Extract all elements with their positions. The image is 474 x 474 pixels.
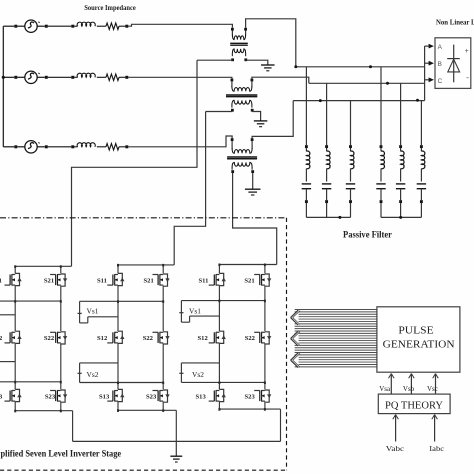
svg-text:Passive Filter: Passive Filter [343,230,392,240]
wire stub to load B [425,62,429,64]
terminal square right of source 2 [45,76,48,79]
svg-text:+: + [465,48,469,55]
voltage source Vs2 module 2 [80,362,118,364]
wire module 2 mid rail upper [80,300,164,302]
voltage source Vs1 module 2 [79,301,81,323]
transistor S11 module 3 [219,273,223,285]
transformer T3 primary winding [231,141,233,149]
inverter stage dashed border top [0,217,287,219]
wire module 1 right column [60,266,62,273]
transistor S13 module 1 [15,389,19,401]
terminal square filter 2 bottom [325,200,328,203]
terminal square filter 3 bottom [349,200,352,203]
wire filter 6 to bottom bus [420,203,422,217]
wire to AC source 2 [17,76,25,78]
svg-text:S11: S11 [0,277,2,284]
transformer T3 core [227,156,257,158]
wire R2 to node [119,76,125,78]
svg-text:Vs2: Vs2 [192,370,204,379]
wire T1 primary right to bus A [246,19,296,67]
terminal square filter 4 bottom [380,200,383,203]
transformer T1 core [230,42,248,44]
terminal square left of source 1 [14,25,17,28]
wire filter 3 [350,148,352,151]
wire module 2 mid rail lower [80,382,164,384]
transformer T1 secondary loops [232,49,245,54]
transformer T1 terminals top [231,28,234,31]
transistor S12 module 3 [219,331,223,343]
transformer T2 primary winding [231,81,233,87]
voltage source Vs1 module 3 [180,301,182,323]
AC source Vs1 [25,20,37,32]
junction nubs module 3 [218,264,220,267]
terminal square filter 5 bottom [399,200,402,203]
transformer T3 primary loops [232,148,252,153]
wire T3 primary right to bus C [252,101,293,139]
transformer T2 primary loops [232,86,252,91]
wire ground stem [175,441,177,456]
non linear load box U1 [435,38,471,89]
terminal square right of source 3 [45,145,48,148]
svg-text:S23: S23 [45,393,56,400]
wire filter 4 low [380,189,382,200]
terminal square after resistor R1 [125,25,128,28]
terminal square left of source 3 [14,145,17,148]
wire to AC source 1 [17,25,25,27]
svg-text:Vs1: Vs1 [189,307,201,316]
terminal square filter 4 [380,145,383,148]
resistor R1 source impedance [106,23,119,29]
junction nubs module 2 [117,264,119,267]
transistor S13 module 3 [219,389,223,401]
wire filter 6 low [420,189,422,200]
transistor S12 module 2 [118,331,122,343]
wire filter branch 1 drop [305,67,307,145]
capacitor Cf2 [322,183,331,185]
wire module 1 left column [14,266,16,273]
wire filter 1 mid [305,169,307,182]
transistor S11 module 2 [118,273,122,285]
wire module 3 right column [264,265,266,274]
wire module 1 mid rail upper [0,300,61,302]
svg-text:Vs1: Vs1 [87,307,99,316]
wire filter 1 to bottom bus [305,203,307,217]
capacitor Cf5 [396,183,405,185]
wire bus phase A [296,66,425,68]
wire arrow Vsb [410,374,412,395]
wire to inductor L3 [74,146,77,148]
wire from AC source 2 [37,76,45,78]
wire source 2 to impedance [48,76,72,78]
wire source 1 to impedance [48,25,72,27]
svg-text:S22: S22 [143,335,154,342]
terminal square filter 2 [325,145,328,148]
svg-text:C: C [438,78,443,85]
voltage source Vs2 module 1 top stub [0,361,15,363]
wire load drop vertical [424,46,426,101]
wire bus phase C [293,100,424,102]
block PULSE GENERATION [377,307,460,372]
transformer T2 terminals top [231,79,234,82]
wire module 3 bottom feed [280,409,282,441]
inductor Lf6 [421,151,424,169]
wire module 1 bottom feed [72,411,74,442]
wire module 2 right column [162,265,164,274]
resistor R3 source impedance [106,144,119,150]
inverter stage dashed border right [286,218,288,470]
wire module 2 bottom rail [118,409,176,411]
wire module 2 top rail [118,264,174,266]
wire R1 to node [119,25,125,27]
transistor S21 module 2 [163,274,167,286]
wire T1 secondary right to ground [246,60,268,65]
wire filter branch 4 drop [380,67,382,145]
terminal square filter 5 [399,145,402,148]
wire bus to source 3 [3,146,14,148]
wire T3 secondary left into inverter [233,173,277,265]
svg-text:S23: S23 [245,393,256,400]
transformer T1 terminals bottom [231,58,234,61]
wire filter 3 low [350,189,352,200]
terminal square after resistor R3 [125,145,128,148]
node filter group 1 [338,216,341,219]
wire bus to source 2 [3,76,14,78]
wire stub to load C [425,79,429,81]
transformer T3 terminals top [231,138,234,141]
wire module 1 bottom rail [15,410,72,412]
svg-text:Source Impedance: Source Impedance [84,3,136,12]
svg-text:S22: S22 [44,335,55,342]
svg-text:Vsc: Vsc [427,385,438,393]
svg-text:S12: S12 [97,335,108,342]
svg-text:S23: S23 [146,393,157,400]
wire filter 4 to bottom bus [380,203,382,217]
AC source Vs3 [25,141,37,153]
wire filter branch 5 drop [400,83,402,145]
svg-text:PULSE: PULSE [398,326,433,337]
wire filter 6 [420,148,422,151]
wire bus to source 1 [3,25,14,27]
terminal square filter 1 bottom [305,200,308,203]
wire module 1 mid rail lower [0,381,61,383]
terminal square after resistor R2 [125,76,128,79]
transistor S21 module 1 [61,274,65,286]
inductor Lf3 [351,151,354,169]
wire module 2 left column [117,265,119,274]
wire bus phase B [309,82,425,84]
inductor L2 source impedance [77,73,95,77]
transistor S11 module 1 [15,273,19,285]
wire filter 5 mid [400,169,402,182]
wire inverter bottom bus [73,440,281,442]
arrowhead into inverter [291,353,299,368]
wire T1 secondary left [197,59,233,61]
wire filter 3 mid [350,169,352,182]
wire filter 5 low [400,189,402,200]
svg-text:Vabc: Vabc [386,444,405,453]
wire from AC source 3 [37,146,45,148]
ground at T3 [245,188,261,190]
node bus C left [319,99,322,102]
wire filter 2 mid [326,169,328,182]
wire from AC source 1 [37,25,45,27]
node filter group 2 [399,216,402,219]
node bus C right [416,99,419,102]
wire filter 5 to bottom bus [400,203,402,217]
svg-text:GENERATION: GENERATION [383,340,455,351]
wire filter group 1 bottom bus [306,216,350,218]
wire L2 to R2 [97,76,106,78]
terminal square left of source 2 [14,76,17,79]
transistor S13 module 2 [118,389,122,401]
transistor S23 module 2 [163,390,167,402]
wire filter branch 2 drop [326,83,328,145]
inverter stage dashed border bottom [0,469,287,471]
wire filter 2 to bottom bus [326,203,328,217]
wire filter group 2 bottom bus [381,216,421,218]
wire filter 2 low [326,189,328,200]
svg-text:S11: S11 [97,277,107,284]
wire filter 1 low [305,189,307,200]
wire phase A to transformer T1 [128,24,232,27]
wire arrow Vsc [435,374,437,395]
svg-text:Non Linear Load: Non Linear Load [436,20,474,27]
ground of inverter [170,455,182,457]
wire module 3 left column [218,265,220,274]
wire filter branch 3 drop [350,101,352,146]
arrowhead into load B [429,61,434,66]
transformer T3 secondary loops [232,162,252,167]
transistor S12 module 1 [15,331,19,343]
terminal square right of source 1 [45,25,48,28]
transformer T2 secondary loops [232,100,252,105]
wire to AC source 3 [17,146,25,148]
wire L3 to R3 [97,146,106,148]
capacitor Cf1 [302,183,311,185]
svg-text:B: B [438,61,442,68]
wire R3 to node [119,146,125,148]
wire T2 return vertical [174,112,205,265]
wire T2 secondary right to ground [252,112,260,121]
wire module 3 mid rail lower [181,381,265,383]
ground at T2 [254,120,268,122]
svg-text:Vs2: Vs2 [87,370,99,379]
capacitor Cf4 [376,183,385,185]
wire filter 3 to bottom bus [350,203,352,217]
capacitor Cf3 [346,183,355,185]
wire T1 return vertical [72,60,198,266]
svg-text:S13: S13 [196,393,207,400]
wire module 3 mid rail upper [181,300,265,302]
wire to inductor L2 [74,76,77,78]
transformer T1 primary loops [232,35,245,40]
wire filter 6 mid [420,169,422,182]
wire module 1 top rail [15,265,71,267]
terminal square filter 6 bottom [420,200,423,203]
terminal square before inductor L3 [71,145,74,148]
wire source 3 to impedance [48,146,72,148]
wire gate pulse bus lines [295,310,377,367]
wire phase B to transformer T2 [128,77,232,78]
inductor Lf4 [381,151,384,169]
terminal square before inductor L1 [71,25,74,28]
transistor S22 module 3 [265,332,269,344]
node bus A [369,65,372,68]
transformer T2 core [226,94,257,96]
inductor Lf2 [327,151,330,169]
terminal square filter 1 [305,145,308,148]
svg-text:S13: S13 [99,393,110,400]
wire T3 secondary right to ground [252,173,254,189]
arrowhead into load A [429,44,434,49]
inductor Lf5 [401,151,404,169]
terminal square before inductor L2 [71,76,74,79]
transistor S23 module 3 [265,390,269,402]
transistor S23 module 1 [61,390,65,402]
svg-text:Vsb: Vsb [403,385,415,393]
wire L1 to R1 [97,25,106,27]
wire module 3 top rail [219,264,276,266]
terminal square filter 3 [349,145,352,148]
wire stub to load A [425,45,429,47]
svg-text:-: - [466,73,469,82]
node bus A at T1 feed [294,65,297,68]
transistor S22 module 2 [163,332,167,344]
wire arrow Vabc [395,415,397,442]
svg-text:plified Seven Level Inverter S: plified Seven Level Inverter Stage [1,449,122,459]
node on left bus [2,76,5,79]
capacitor Cf6 [417,183,426,185]
wire T2 primary right to bus B [252,77,309,83]
svg-text:S21: S21 [244,277,254,284]
svg-text:PQ THEORY: PQ THEORY [385,400,443,412]
wire T2 secondary left [206,111,233,113]
transformer T3 terminals bottom [231,170,234,173]
junction nubs module 1 [14,265,16,268]
svg-text:S22: S22 [245,335,256,342]
wire filter 5 [400,148,402,151]
transformer T1 primary winding [231,30,233,35]
transformer T2 terminals bottom [231,109,234,112]
left bus wire [2,26,4,147]
resistor R2 source impedance [106,74,119,80]
arrowhead into inverter [291,331,299,346]
svg-text:A: A [438,44,443,51]
arrowhead into inverter [291,310,299,325]
wire filter 4 [380,148,382,151]
wire to inductor L1 [74,25,77,27]
inductor L3 source impedance [77,143,95,147]
wire filter 4 mid [380,169,382,182]
diode D1 inside load [453,45,455,83]
wire module 2 bottom feed [175,410,177,441]
block PQ THEORY [378,394,450,414]
svg-text:S11: S11 [199,277,209,284]
transistor S22 module 1 [61,332,65,344]
svg-text:S12: S12 [198,335,209,342]
wire arrow Vsa [390,374,392,395]
transistor S21 module 3 [265,274,269,286]
wire filter 2 [326,148,328,151]
inductor L1 source impedance [77,22,95,26]
wire phase C to transformer T3 [128,136,232,147]
voltage source Vs1 module 1 return stub [0,314,15,316]
svg-text:S21: S21 [44,277,54,284]
terminal square filter 6 [420,145,423,148]
node bus B [386,82,389,85]
wire arrow Iabc [434,415,436,442]
voltage source Vs2 module 3 [181,362,219,364]
ground at T1 [261,64,275,66]
svg-text:Iabc: Iabc [429,444,445,453]
AC source Vs2 [25,71,37,83]
arrowhead into load C [429,77,434,82]
svg-text:S21: S21 [144,277,154,284]
inductor Lf1 [306,151,309,169]
wire filter 1 [305,148,307,151]
svg-text:Vsa: Vsa [379,385,391,393]
wire filter branch 6 drop [420,101,422,146]
wire module 3 bottom rail [219,408,280,410]
